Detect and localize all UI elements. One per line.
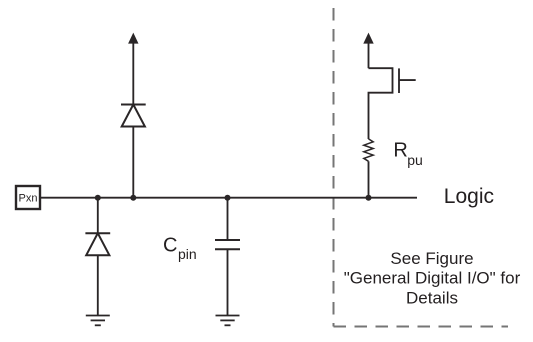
- diode D2: clamp to GND (cathode bar + triangle): [85, 233, 110, 315]
- wire: main horizontal net from Pxn to Logic: [40, 197, 417, 199]
- note: See Figure "General Digital I/O" for Details: [344, 249, 521, 308]
- junction: pull-up tap: [366, 195, 372, 201]
- label Rpu: [393, 140, 422, 169]
- transistor Q1: pull-up MOSFET: [369, 68, 416, 139]
- svg-text:Logic: Logic: [444, 185, 494, 208]
- VCC arrow (left, above upper clamp diode): [128, 33, 138, 105]
- svg-text:"General Digital I/O" for: "General Digital I/O" for: [344, 269, 521, 288]
- capacitor Cpin: [215, 198, 240, 316]
- ground (below capacitor): [216, 316, 240, 326]
- label Cpin: [163, 235, 197, 262]
- wire: node to lower clamp diode: [97, 198, 99, 234]
- junction: lower diode tap: [95, 195, 101, 201]
- svg-text:C: C: [163, 235, 177, 257]
- svg-text:Pxn: Pxn: [19, 193, 38, 205]
- svg-text:See Figure: See Figure: [390, 249, 473, 268]
- dashed boundary of internal logic block: [334, 8, 509, 327]
- resistor Rpu (zigzag): [364, 139, 373, 198]
- diode D1: clamp to VCC (cathode bar + triangle): [121, 105, 146, 198]
- svg-text:Details: Details: [406, 288, 458, 307]
- svg-text:pin: pin: [178, 246, 197, 262]
- VCC arrow (right, above pull-up PMOS): [363, 33, 373, 69]
- svg-text:pu: pu: [407, 152, 423, 168]
- junction: upper diode tap: [130, 195, 136, 201]
- svg-text:R: R: [393, 140, 407, 162]
- pin Pxn: [16, 186, 40, 209]
- ground (below lower diode): [86, 316, 110, 326]
- junction: capacitor tap: [225, 195, 231, 201]
